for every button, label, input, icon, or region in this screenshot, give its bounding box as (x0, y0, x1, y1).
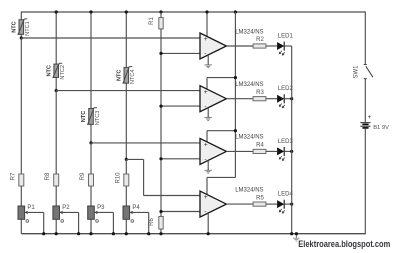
resistor R9 (89, 174, 94, 186)
svg-text:NTC: NTC (46, 65, 52, 77)
wire: U3 output to R4 (226, 150, 253, 152)
wire: P1 wiper to bus (28, 211, 44, 213)
svg-text:+: + (204, 142, 208, 149)
pot P2 rotation mark (circle) (61, 220, 64, 223)
potentiometer P1 (18, 206, 28, 219)
resistor R8 (54, 174, 59, 186)
op-amp U4 LM324/NS (200, 191, 226, 217)
wire: LED1 to LED rail (284, 45, 292, 47)
wire: reference rail R1 to R6 (160, 29, 162, 217)
svg-text:P1: P1 (27, 205, 35, 211)
pot P4 rotation mark (circle) (131, 220, 134, 223)
wire: R8 to P2 (55, 186, 57, 206)
junction: node NTC4/R10 (125, 158, 128, 161)
svg-text:SW1: SW1 (354, 65, 360, 79)
ground at U1 V- (205, 65, 212, 68)
pot P3 rotation mark (circle) (96, 220, 99, 223)
wire: reference rail to U2 -in (161, 105, 200, 107)
wire: top bus to R1 (160, 12, 162, 18)
potentiometer P4 (123, 206, 133, 219)
wire: P3 bottom to ground bus (90, 219, 92, 233)
junction: node NTC1/R7 (20, 36, 23, 39)
svg-text:R4: R4 (256, 143, 264, 149)
wire: U3 V+ pin elbow (207, 130, 235, 132)
wire: right rail mid (SW1 to battery) (364, 79, 366, 122)
svg-text:R3: R3 (256, 90, 264, 96)
wire: U2 V+ pin elbow (207, 77, 235, 79)
LED LED4 (277, 200, 285, 213)
battery B1 (360, 123, 370, 128)
svg-text:NTC: NTC (81, 111, 87, 123)
wire: P1 bottom to ground bus (20, 219, 22, 233)
svg-text:Elektroarea.blogspot.com: Elektroarea.blogspot.com (298, 239, 390, 249)
wire: U1 V+ pin to top bus (206, 12, 208, 37)
junction: R1 at top bus (159, 10, 162, 13)
svg-text:NTC: NTC (11, 21, 17, 33)
pot P1 rotation mark (circle) (26, 220, 29, 223)
svg-text:LM324/NS: LM324/NS (235, 135, 263, 141)
wire: U1 output to R2 (226, 45, 253, 47)
switch SW1 (364, 65, 373, 79)
junction: P2 bottom at bus (55, 232, 58, 235)
wire: P2 wiper to bus (63, 211, 79, 213)
junction: rail 3 at top bus (89, 10, 92, 13)
resistor R5 (253, 202, 266, 206)
junction: P1 wiper at bus (42, 232, 45, 235)
wire: U2 V- pin (207, 108, 209, 118)
junction: V+ rail at top bus (234, 10, 237, 13)
svg-text:P2: P2 (62, 205, 70, 211)
wire: R2 to LED1 (266, 45, 277, 47)
svg-text:R1: R1 (149, 17, 155, 25)
resistor R6 (159, 217, 163, 230)
junction: R6 at bus (159, 232, 162, 235)
junction: reference rail at U4 -in (159, 210, 162, 213)
wire: node NTC2 to U2 +in (56, 90, 200, 92)
svg-text:NTC3: NTC3 (95, 111, 101, 126)
svg-text:-: - (204, 209, 206, 216)
wire: NTC4 to junction (125, 83, 127, 159)
svg-text:+: + (204, 194, 208, 201)
junction: LED2 at LED rail (290, 97, 293, 100)
wire: U4 output to R5 (226, 203, 253, 205)
potentiometer P2 (53, 206, 63, 219)
wire: P2 bottom to ground bus (55, 219, 57, 233)
junction: P3 bottom at bus (89, 232, 92, 235)
resistor R7 (19, 174, 24, 186)
wire: P4 wiper to bus (133, 211, 149, 213)
junction: P2 wiper at bus (77, 232, 80, 235)
svg-text:LED3: LED3 (278, 139, 294, 145)
wire: U4 V- pin to ground bus (207, 213, 209, 234)
svg-text:LED4: LED4 (278, 192, 294, 198)
op-amp U1 LM324/NS (200, 33, 226, 59)
junction: LED3 at LED rail (290, 150, 293, 153)
ground at U3 V- (205, 170, 212, 173)
wire: rail 4 junction to R10 (125, 159, 127, 174)
wire: V+ vertical rail (234, 12, 236, 177)
junction: U3 V+ elbow at V+ rail (234, 129, 237, 132)
wire: R5 to LED4 (266, 203, 277, 205)
svg-text:-: - (204, 50, 206, 57)
junction: rail 2 at top bus (55, 10, 58, 13)
svg-text:+: + (204, 89, 208, 96)
wire: R9 to P3 (90, 186, 92, 206)
wire: U3 V- pin (207, 160, 209, 170)
resistor R2 (253, 44, 266, 48)
wire: U2 output to R3 (226, 98, 253, 100)
junction: LED rail at ground bus (290, 232, 293, 235)
svg-text:R7: R7 (10, 172, 16, 180)
wire: node NTC4 to U4 +in (jog) (126, 158, 143, 160)
wire: rail 2 top bus to NTC2 (55, 11, 57, 64)
svg-text:LM324/NS: LM324/NS (235, 82, 263, 88)
resistor R1 (159, 18, 163, 29)
junction: P4 wiper at bus (147, 232, 150, 235)
wire: right rail top (bus to SW1) (364, 11, 366, 64)
thermistor NTC3 (88, 108, 98, 125)
svg-text:R8: R8 (45, 172, 51, 180)
wire: R7 to P1 (20, 186, 22, 206)
wire: LED3 to LED rail (284, 150, 292, 152)
wire: R10 to P4 (125, 186, 127, 206)
junction: U1 V+ at top bus (205, 10, 208, 13)
svg-text:+: + (204, 36, 208, 43)
wire: R3 to LED2 (266, 98, 277, 100)
junction: rail 4 at top bus (125, 10, 128, 13)
junction: U2 V+ elbow at V+ rail (234, 76, 237, 79)
svg-text:LED2: LED2 (278, 86, 294, 92)
resistor R4 (253, 149, 266, 153)
wire: node NTC1 to U1 +in (21, 37, 200, 39)
op-amp U3 LM324/NS (200, 138, 226, 164)
wire: LED cathode rail (291, 46, 293, 234)
wire: reference rail to U4 -in (161, 211, 200, 213)
wire: rail 3 junction to R9 (90, 143, 92, 174)
junction: P4 bottom at bus (125, 232, 128, 235)
resistor R3 (253, 97, 266, 101)
wire: ground bottom bus (21, 233, 365, 235)
svg-text:NTC1: NTC1 (25, 21, 31, 36)
wire: reference rail to U3 -in (161, 158, 200, 160)
junction: reference rail at U1 -in (159, 52, 162, 55)
wire: U4 V+ pin elbow (207, 176, 235, 178)
potentiometer P3 (88, 206, 98, 219)
svg-text:R9: R9 (80, 172, 86, 180)
wire: P3 wiper to bus (97, 211, 113, 213)
wire: R6 to ground bus (160, 229, 162, 234)
svg-text:NTC2: NTC2 (60, 65, 66, 80)
junction: node NTC3/R9 (89, 141, 92, 144)
wire: rail 1 junction to R7 (20, 38, 22, 174)
svg-text:P3: P3 (97, 205, 105, 211)
LED LED1 (277, 42, 285, 55)
wire: right rail bottom (battery to bus) (364, 129, 366, 235)
wire: NTC1 to junction (20, 34, 22, 38)
wire: rail 4 top bus to NTC4 (125, 11, 127, 67)
svg-text:-: - (204, 103, 206, 110)
svg-text:+: + (368, 115, 372, 121)
svg-text:LM324/NS: LM324/NS (235, 29, 263, 35)
svg-text:NTC: NTC (116, 70, 122, 82)
svg-text:-: - (204, 156, 206, 163)
junction: reference rail at U2 -in (159, 105, 162, 108)
wire: LED2 to LED rail (284, 98, 292, 100)
svg-text:LED1: LED1 (278, 34, 294, 40)
thermistor NTC1 (18, 19, 28, 35)
wire: NTC2 to junction (55, 78, 57, 91)
junction: P3 wiper at bus (112, 232, 115, 235)
resistor R10 (124, 174, 129, 186)
wire: rail 1 top bus to NTC1 (20, 11, 22, 19)
svg-text:R5: R5 (256, 195, 264, 201)
ground (main, at ground bus) (293, 232, 300, 241)
wire: rail 2 junction to R8 (55, 91, 57, 174)
junction: node NTC2/R8 (55, 89, 58, 92)
op-amp U2 LM324/NS (200, 86, 226, 112)
wire: reference rail to U1 -in (161, 52, 200, 54)
thermistor NTC4 (123, 67, 133, 84)
thermistor NTC2 (53, 63, 63, 78)
wire: rail 3 top bus to NTC3 (90, 11, 92, 108)
junction: reference rail at U3 -in (159, 157, 162, 160)
wire: LED4 to LED rail (284, 203, 292, 205)
wire: P4 bottom to ground bus (125, 219, 127, 233)
svg-text:R6: R6 (149, 218, 155, 226)
wire: V+ top bus (21, 11, 365, 13)
wire: U1 V- pin (207, 55, 209, 65)
wire: R4 to LED3 (266, 150, 277, 152)
svg-text:R10: R10 (115, 172, 121, 184)
wire: node NTC3 to U3 +in (91, 142, 200, 144)
svg-text:NTC4: NTC4 (130, 69, 136, 84)
svg-text:B1 9V: B1 9V (373, 125, 389, 131)
LED LED3 (277, 147, 285, 160)
ground at U2 V- (205, 118, 212, 121)
junction: U4 V- at bus (207, 232, 210, 235)
svg-text:P4: P4 (132, 205, 140, 211)
LED LED2 (277, 94, 285, 107)
svg-text:R2: R2 (256, 37, 264, 43)
junction: LED4 at LED rail (290, 203, 293, 206)
svg-text:LM324/NS: LM324/NS (235, 187, 263, 193)
wire: NTC3 to junction (90, 124, 92, 142)
